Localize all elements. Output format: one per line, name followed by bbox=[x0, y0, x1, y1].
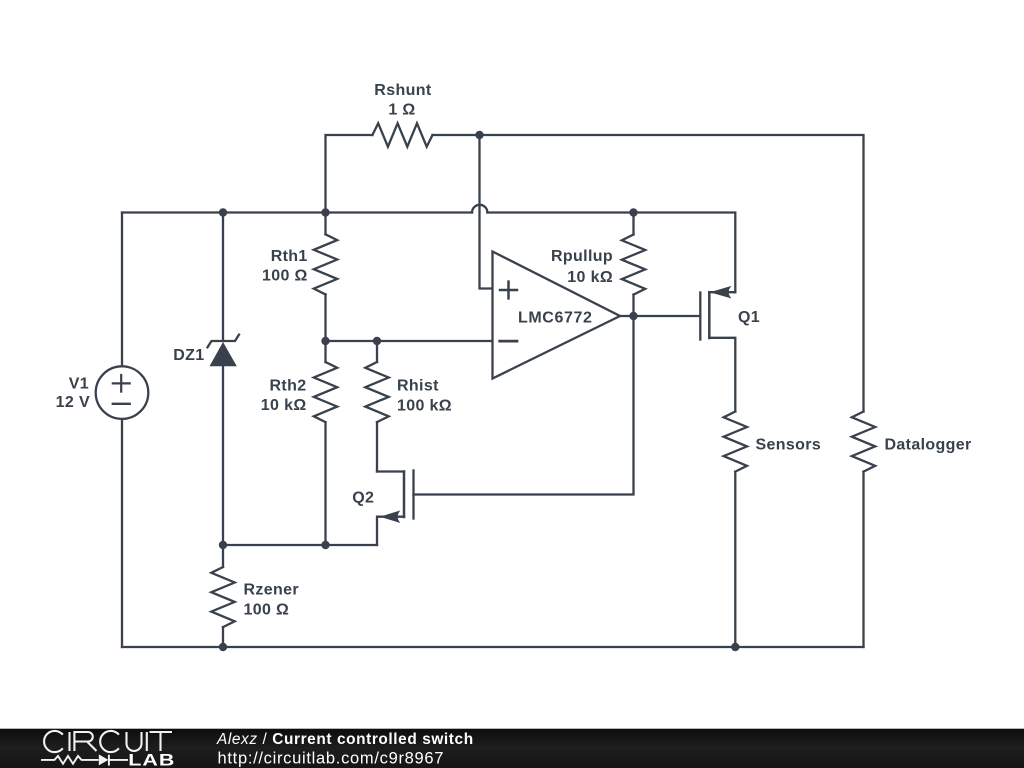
svg-text:Rzener: Rzener bbox=[244, 582, 299, 599]
svg-text:Rhist: Rhist bbox=[397, 378, 439, 395]
svg-text:Q2: Q2 bbox=[352, 490, 374, 507]
svg-text:Rth2: Rth2 bbox=[270, 377, 307, 394]
svg-text:http://circuitlab.com/c9r8967: http://circuitlab.com/c9r8967 bbox=[218, 750, 445, 768]
svg-text:Alexz / Current controlled swi: Alexz / Current controlled switch bbox=[216, 731, 474, 748]
svg-text:LMC6772: LMC6772 bbox=[518, 309, 592, 326]
svg-text:Rshunt: Rshunt bbox=[374, 82, 432, 99]
svg-text:Sensors: Sensors bbox=[756, 436, 822, 453]
svg-text:Datalogger: Datalogger bbox=[885, 436, 972, 453]
svg-text:10 kΩ: 10 kΩ bbox=[567, 269, 613, 286]
svg-text:DZ1: DZ1 bbox=[173, 347, 204, 364]
svg-text:100 Ω: 100 Ω bbox=[262, 268, 308, 285]
svg-text:LAB: LAB bbox=[128, 752, 175, 768]
svg-text:10 kΩ: 10 kΩ bbox=[261, 397, 307, 414]
svg-text:100 kΩ: 100 kΩ bbox=[397, 397, 452, 414]
svg-text:100 Ω: 100 Ω bbox=[244, 602, 290, 619]
svg-text:Rth1: Rth1 bbox=[271, 248, 308, 265]
svg-text:12 V: 12 V bbox=[56, 394, 90, 411]
svg-text:Rpullup: Rpullup bbox=[551, 248, 613, 265]
svg-text:1 Ω: 1 Ω bbox=[388, 102, 415, 119]
svg-text:Q1: Q1 bbox=[738, 309, 760, 326]
svg-text:V1: V1 bbox=[69, 376, 89, 393]
